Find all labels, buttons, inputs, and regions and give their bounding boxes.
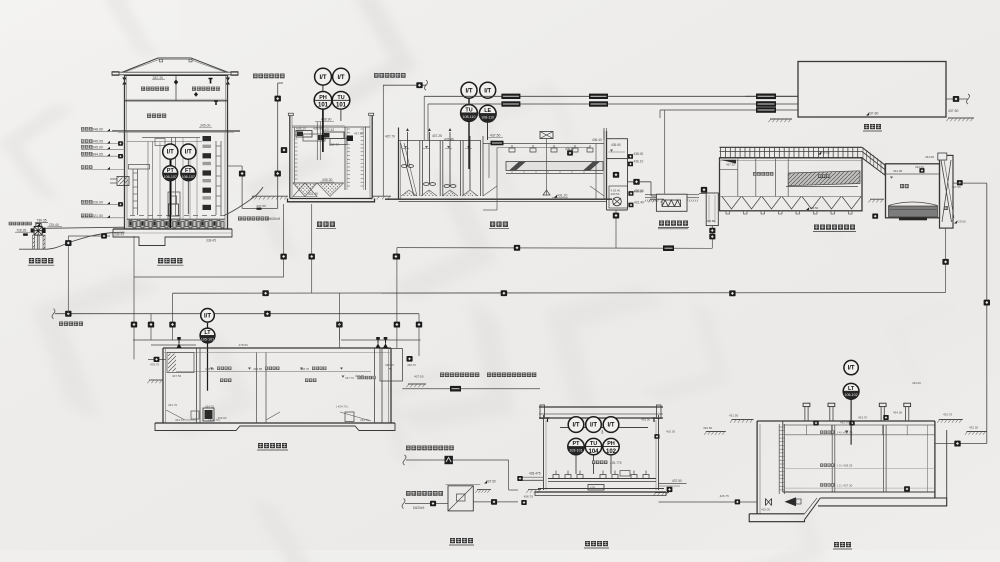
svg-text:106-102: 106-102 <box>844 393 857 397</box>
raw water pipe curve D630x9 <box>224 187 263 216</box>
siphon riser pair to distribution well <box>241 166 243 208</box>
water level lines <box>785 434 935 436</box>
outlet line right <box>946 98 968 100</box>
eave hangers <box>122 78 126 85</box>
pump manifold <box>548 478 656 480</box>
svg-text:I/T: I/T <box>320 75 327 81</box>
svg-text:438.06: 438.06 <box>313 127 323 131</box>
svg-text:437.25: 437.25 <box>432 134 442 138</box>
chamber shaft down <box>606 159 608 210</box>
svg-text:348.00: 348.00 <box>92 128 103 132</box>
svg-text:PH: PH <box>319 95 327 101</box>
to phase-2 presed. basin branch <box>371 73 427 199</box>
svg-text:436.10: 436.10 <box>634 160 644 164</box>
left small chamber detail <box>167 353 194 373</box>
main floor and base slab <box>783 491 935 493</box>
svg-text:344.05: 344.05 <box>92 152 103 156</box>
svg-text:430.50: 430.50 <box>634 189 644 193</box>
svg-text:104: 104 <box>588 449 599 455</box>
tube mixer <box>634 189 700 211</box>
svg-text:430.50: 430.50 <box>703 426 713 430</box>
svg-text:431.20: 431.20 <box>557 194 567 198</box>
svg-text:433.70: 433.70 <box>840 420 849 424</box>
svg-text:102: 102 <box>606 449 617 455</box>
manifold collectors over sludge basin <box>133 339 203 341</box>
dosing drop to tube mixer <box>664 110 666 194</box>
svg-text:I/T: I/T <box>608 423 615 429</box>
instruments above sludge basin <box>200 309 215 391</box>
svg-text:( 3 ) 429.25: ( 3 ) 429.25 <box>837 464 853 468</box>
svg-text:I/T: I/T <box>185 150 192 156</box>
to plant production buildings line <box>403 446 518 491</box>
corner slopes <box>483 186 497 196</box>
svg-text:I/T: I/T <box>848 366 855 372</box>
svg-text:345.00: 345.00 <box>92 146 103 150</box>
svg-text:438.85: 438.85 <box>205 367 215 371</box>
right wall <box>926 425 928 492</box>
svg-text:437.50: 437.50 <box>172 374 182 378</box>
weir box <box>607 139 628 159</box>
top slab <box>757 420 935 422</box>
drops from distribution well <box>283 204 285 277</box>
svg-text:PT: PT <box>573 441 581 447</box>
svg-text:LT: LT <box>204 330 211 336</box>
svg-text:424.70: 424.70 <box>175 418 184 422</box>
svg-text:106-107: 106-107 <box>182 175 195 179</box>
svg-text:434.00: 434.00 <box>893 169 903 173</box>
label: delivery pump house <box>585 541 590 546</box>
svg-text:436.60: 436.60 <box>611 143 621 147</box>
water levels and texts <box>176 371 371 373</box>
dosing header lines to chemical room <box>424 94 798 194</box>
drain collection line y=248 <box>394 210 713 348</box>
small gate platform left outside <box>117 177 129 186</box>
ground-level crane beam <box>112 130 240 132</box>
svg-text:PT: PT <box>167 168 175 174</box>
deep bottom slab under channel <box>749 514 804 522</box>
svg-text:434.00: 434.00 <box>912 381 921 385</box>
svg-text:478.70: 478.70 <box>150 363 160 367</box>
svg-text:437.77: 437.77 <box>329 143 339 147</box>
svg-text:382.35: 382.35 <box>153 76 163 80</box>
svg-text:420.30: 420.30 <box>666 430 676 434</box>
inner rim <box>292 126 370 128</box>
bottom slopes + sludge pumps <box>166 410 197 420</box>
outer shell <box>162 348 164 423</box>
svg-text:437.80: 437.80 <box>868 112 878 116</box>
svg-text:338.45: 338.45 <box>206 239 216 243</box>
svg-text:I/T: I/T <box>167 150 174 156</box>
svg-text:438.70: 438.70 <box>300 367 310 371</box>
stepped railing down to filter <box>862 147 886 165</box>
label: pre-sed basin <box>490 222 495 227</box>
cell bottom slopes <box>401 190 417 196</box>
svg-text:438.85: 438.85 <box>253 367 263 371</box>
label: clear water pool <box>834 542 839 547</box>
svg-text:434.00: 434.00 <box>893 411 903 415</box>
filter-to-clearwell pipe: right vertical <box>872 183 990 443</box>
svg-text:437.50: 437.50 <box>414 375 424 379</box>
svg-text:729.40: 729.40 <box>49 223 59 227</box>
svg-text:728.35: 728.35 <box>16 228 26 232</box>
svg-text:321.50: 321.50 <box>92 214 103 218</box>
svg-text:437.80: 437.80 <box>354 132 364 136</box>
svg-text:433.70: 433.70 <box>943 412 953 416</box>
instruments IT/IT PT/FT in pump house <box>163 144 196 228</box>
label: drain & sludge basin <box>258 443 263 448</box>
svg-text:101: 101 <box>336 103 347 109</box>
instruments above pre-sed basin <box>461 82 497 169</box>
svg-text:428.475: 428.475 <box>529 472 541 476</box>
collection channel left of settling zone <box>488 144 490 179</box>
mixers in cells <box>407 132 409 166</box>
interior platform line <box>142 137 200 139</box>
svg-text:437.50: 437.50 <box>948 109 958 113</box>
water level marks in cells <box>404 146 407 148</box>
svg-text:431.40: 431.40 <box>308 192 318 196</box>
svg-text:I/T: I/T <box>338 75 345 81</box>
settling zone top trough row <box>483 143 604 145</box>
inclined tube settler band <box>506 162 603 171</box>
svg-text:431.50: 431.50 <box>729 414 739 418</box>
middle water text <box>342 376 345 378</box>
svg-text:432.46: 432.46 <box>444 138 454 142</box>
svg-text:437.50: 437.50 <box>490 134 500 138</box>
building walls <box>124 75 126 131</box>
svg-text:( 424.70 ): ( 424.70 ) <box>336 405 348 409</box>
platform railing <box>720 146 863 148</box>
from phase-2 raw water pipe label <box>253 74 258 79</box>
label: flow meter well <box>450 538 455 543</box>
svg-text:478.50: 478.50 <box>239 343 249 347</box>
inlet wedge <box>721 160 736 164</box>
floor and base <box>538 488 664 490</box>
svg-text:105-101: 105-101 <box>201 337 214 341</box>
inner left wall <box>294 127 296 183</box>
svg-text:437.50: 437.50 <box>952 185 962 189</box>
svg-text:D620x9: D620x9 <box>413 506 425 510</box>
label: chemical room <box>864 124 869 129</box>
inlet riser from pump house <box>277 83 279 208</box>
transfer line to mixer <box>628 181 652 183</box>
svg-text:437.70: 437.70 <box>385 135 395 139</box>
filter section of integrated unit <box>648 153 966 228</box>
feeder line into basin left wall <box>148 358 166 360</box>
grade hatch under unit <box>650 198 664 200</box>
svg-text:730.35: 730.35 <box>37 219 47 223</box>
svg-text:LE: LE <box>484 108 491 114</box>
filter inlet channel weir at top <box>886 173 940 175</box>
interior divider + diamond <box>175 75 177 100</box>
svg-text:PH: PH <box>607 441 615 447</box>
instruments over clear water pool <box>843 360 859 399</box>
svg-text:101: 101 <box>590 486 596 490</box>
main long line y=293 <box>173 292 946 295</box>
to port drainage network line + flow meter well <box>402 480 533 512</box>
grade line left of distribution well <box>252 195 288 197</box>
svg-text:437.25: 437.25 <box>726 163 735 167</box>
svg-text:430.50: 430.50 <box>611 192 620 196</box>
filter arch surface <box>889 202 938 206</box>
svg-text:437.50: 437.50 <box>486 480 496 484</box>
label: tube mixer <box>659 221 664 226</box>
internal gate boxes <box>296 131 312 138</box>
eave beam <box>112 72 238 75</box>
right outlet from filter vertical <box>935 443 987 445</box>
svg-text:438.00: 438.00 <box>634 152 644 156</box>
svg-text:101: 101 <box>318 103 329 109</box>
instrument stem <box>850 399 852 445</box>
instruments over delivery pump house <box>568 417 619 455</box>
pump house underground pit <box>113 131 232 246</box>
svg-text:I/T: I/T <box>484 88 491 94</box>
svg-text:I/T: I/T <box>466 88 473 94</box>
roof vents <box>804 407 806 422</box>
internal columns <box>831 425 833 492</box>
svg-text:438.70: 438.70 <box>407 363 416 367</box>
VFD room label <box>147 114 151 118</box>
svg-text:424.70: 424.70 <box>360 418 369 422</box>
electrical room labels <box>141 87 145 91</box>
svg-text:108-110: 108-110 <box>463 115 476 119</box>
svg-text:I/T: I/T <box>573 423 580 429</box>
svg-text:I/T: I/T <box>204 313 211 319</box>
main line B y=313.7 <box>55 313 419 315</box>
svg-text:TU: TU <box>337 95 344 101</box>
outer walls and floor <box>398 141 400 200</box>
label: intake pump house <box>158 258 163 263</box>
base slab <box>288 199 375 202</box>
svg-text:436.60: 436.60 <box>821 150 831 154</box>
svg-text:345.05: 345.05 <box>92 140 103 144</box>
svg-text:438.10: 438.10 <box>296 127 306 131</box>
drops into sludge basin manifold <box>150 314 152 340</box>
lattice intake cage <box>34 226 42 235</box>
svg-text:435.50: 435.50 <box>641 418 651 422</box>
top valve actuator <box>540 132 553 139</box>
feeder line y=277 from pump house sump <box>133 236 135 340</box>
svg-text:437.50: 437.50 <box>256 204 266 208</box>
svg-text:345.00: 345.00 <box>200 124 210 128</box>
svg-text:( 424.70 ): ( 424.70 ) <box>208 418 220 422</box>
first floor line <box>125 100 228 102</box>
svg-text:438.85: 438.85 <box>385 363 394 367</box>
label: distribution well <box>317 222 322 227</box>
svg-text:D630x9: D630x9 <box>267 217 280 221</box>
watermark chevrons <box>320 0 432 123</box>
line standpipe to equipment <box>699 193 706 195</box>
internal dividers <box>196 348 198 423</box>
ground/bank slope <box>19 232 125 249</box>
svg-text:426.75: 426.75 <box>720 494 730 498</box>
inlet drop pipe <box>316 122 318 161</box>
svg-text:431.40: 431.40 <box>634 201 644 205</box>
svg-text:108-110: 108-110 <box>481 116 494 120</box>
label: integrated purification unit <box>814 225 819 230</box>
svg-text:425.05: 425.05 <box>761 508 770 512</box>
top pumps <box>176 343 181 348</box>
suction inlet left <box>518 479 544 481</box>
svg-text:433.70: 433.70 <box>858 416 868 420</box>
svg-text:437.43: 437.43 <box>324 128 334 132</box>
intake head label <box>29 258 34 263</box>
columns/walls <box>543 415 545 490</box>
discharge outlet right <box>659 483 687 485</box>
svg-text:432.50: 432.50 <box>969 426 979 430</box>
svg-text:478.80: 478.80 <box>706 219 716 223</box>
svg-text:103-101: 103-101 <box>569 449 582 453</box>
well outer walls <box>289 114 291 199</box>
media band <box>889 206 938 217</box>
svg-text:436.40: 436.40 <box>592 138 602 142</box>
staff gauge tick column <box>778 424 780 494</box>
measuring well <box>344 127 346 190</box>
support tower <box>33 235 35 249</box>
sludge hoppers with speckle <box>293 182 344 184</box>
left elevation annotation rows <box>81 127 125 218</box>
svg-text:TU: TU <box>465 108 472 114</box>
svg-text:I/T: I/T <box>590 423 597 429</box>
reaction zone label & settling dark band <box>753 172 757 176</box>
svg-text:434.08: 434.08 <box>925 155 934 159</box>
svg-text:426.75: 426.75 <box>524 495 534 499</box>
internal partitions <box>720 160 863 162</box>
standpipe (head tank) <box>699 187 720 248</box>
svg-text:106-107: 106-107 <box>164 175 177 179</box>
roof crane beam <box>539 406 663 408</box>
right outlet tower <box>940 155 954 228</box>
base slab with end feet <box>155 423 395 431</box>
left inlet channel <box>756 421 758 514</box>
svg-text:338.45: 338.45 <box>114 233 124 237</box>
svg-text:426.775: 426.775 <box>610 461 622 465</box>
main body <box>720 158 863 211</box>
svg-text:LT: LT <box>848 386 855 392</box>
svg-text:435.30: 435.30 <box>322 178 332 182</box>
outlet note to sludge treatment <box>345 340 540 392</box>
suction pipe to pump house <box>659 501 758 503</box>
right weir boxes inside <box>595 144 597 200</box>
pump sump inside <box>609 186 628 208</box>
3 instrument stems <box>575 455 577 474</box>
svg-text:437.50: 437.50 <box>672 479 682 483</box>
svg-text:( 4 ) 432.70: ( 4 ) 432.70 <box>837 431 853 435</box>
small supports under <box>726 211 730 214</box>
instruments above distribution well <box>314 68 350 152</box>
V hoppers bottom row <box>722 197 741 210</box>
svg-text:431.70: 431.70 <box>168 403 178 407</box>
svg-text:437.70: 437.70 <box>345 376 354 380</box>
svg-text:( 2 ) 427.30: ( 2 ) 427.30 <box>837 483 853 487</box>
svg-text:326.00: 326.00 <box>92 201 103 205</box>
suction pipe <box>45 227 125 228</box>
svg-text:434.00: 434.00 <box>915 165 924 169</box>
filter drain to long line <box>945 228 947 292</box>
roof <box>122 58 228 72</box>
svg-text:429.50: 429.50 <box>957 220 967 224</box>
svg-text:FT: FT <box>185 168 192 174</box>
cell dividers <box>419 141 421 197</box>
grade hatches <box>732 419 754 421</box>
top edge of flocculation cells <box>399 140 482 142</box>
svg-text:TU: TU <box>590 441 597 447</box>
